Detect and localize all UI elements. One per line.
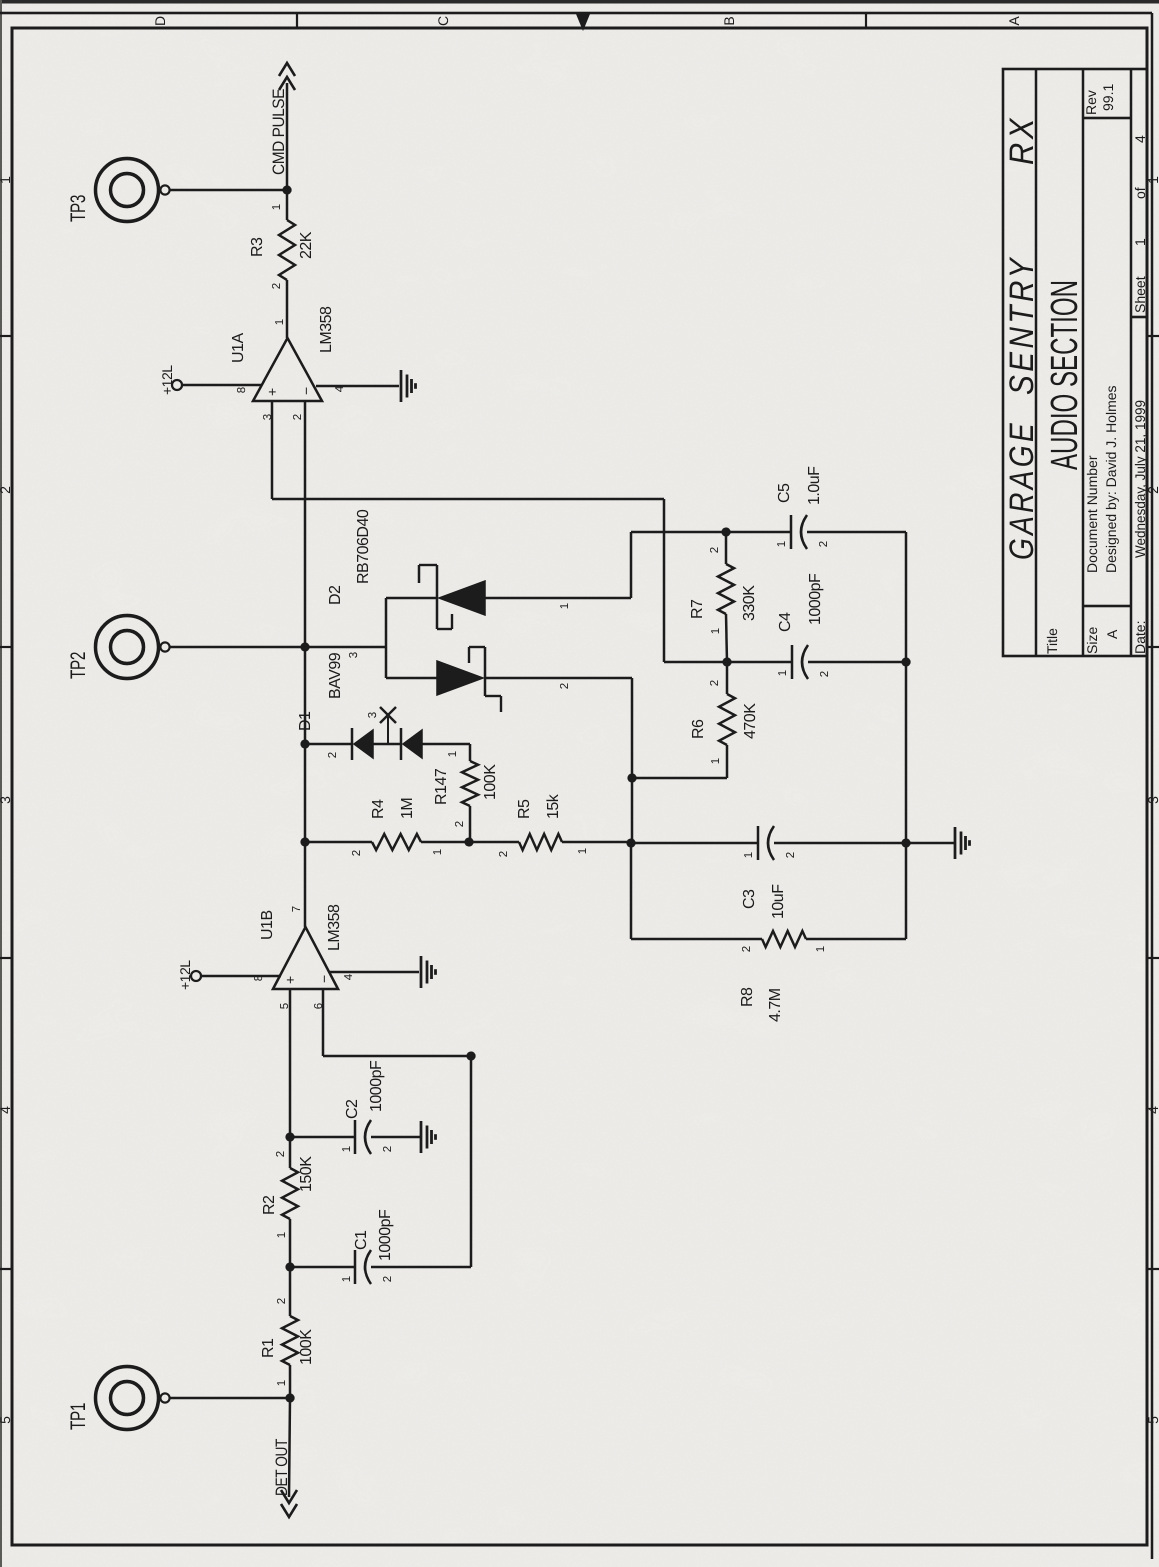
svg-text:1: 1: [777, 670, 789, 676]
svg-text:22K: 22K: [298, 231, 315, 259]
zone tick bottom: [1147, 335, 1159, 337]
svg-text:1: 1: [432, 849, 444, 855]
wire: [726, 662, 729, 694]
zone tick bottom: [1147, 957, 1159, 959]
svg-text:1.0uF: 1.0uF: [806, 466, 823, 505]
test point TP2: [96, 616, 170, 679]
svg-text:+12L: +12L: [177, 960, 193, 990]
wire: [631, 842, 758, 845]
svg-text:Sheet: Sheet: [1132, 276, 1148, 313]
svg-text:1: 1: [276, 1380, 288, 1386]
svg-text:B: B: [721, 16, 737, 25]
wire into pin6: [322, 989, 325, 1056]
svg-text:Wednesday, July 21, 1999: Wednesday, July 21, 1999: [1132, 400, 1148, 558]
svg-text:3: 3: [348, 652, 360, 658]
svg-text:3: 3: [262, 414, 274, 420]
zener B bar: [484, 647, 487, 696]
svg-text:1: 1: [710, 628, 722, 634]
test point TP1: [96, 1367, 170, 1430]
wire left: [663, 499, 666, 662]
svg-text:1: 1: [0, 176, 13, 184]
junction R7/C5: [721, 527, 730, 536]
sheet outer border bottom (scan right): [1151, 13, 1153, 1559]
wire TP2 drop: [170, 646, 305, 649]
svg-text:R1: R1: [260, 1338, 277, 1358]
svg-text:1: 1: [341, 1276, 353, 1282]
svg-text:10uF: 10uF: [770, 884, 787, 919]
svg-text:330K: 330K: [741, 585, 758, 621]
scan page edge top: [0, 0, 1159, 4]
svg-text:R4: R4: [370, 799, 387, 819]
svg-text:2: 2: [709, 680, 721, 686]
junction rail: [901, 838, 910, 847]
svg-text:GARAGE: GARAGE: [1003, 420, 1041, 560]
scan page edge left: [0, 0, 2, 1567]
svg-text:+: +: [282, 976, 298, 984]
wire: [807, 531, 906, 534]
svg-text:1: 1: [577, 848, 589, 854]
svg-text:7: 7: [291, 906, 303, 912]
svg-text:5: 5: [279, 1003, 291, 1009]
zone tick bottom: [1147, 1268, 1159, 1270]
wire: [371, 1266, 471, 1269]
svg-text:R6: R6: [690, 719, 707, 739]
svg-text:4: 4: [0, 1106, 13, 1114]
svg-text:TP3: TP3: [67, 195, 90, 222]
svg-text:1: 1: [341, 1146, 353, 1152]
svg-text:D2: D2: [327, 585, 344, 605]
wire: [305, 743, 352, 746]
svg-text:of: of: [1132, 187, 1148, 199]
junction C1: [285, 1262, 294, 1271]
R3 zigzag: [279, 220, 295, 280]
wire: [289, 1267, 292, 1316]
wire +12L to pin8: [201, 975, 281, 978]
svg-text:1: 1: [274, 319, 286, 325]
svg-text:R147: R147: [433, 768, 450, 805]
wire: [469, 744, 472, 761]
junction C2: [285, 1132, 294, 1141]
svg-text:1: 1: [271, 204, 283, 210]
wire: [774, 842, 906, 845]
zone tick right: [296, 13, 298, 28]
C2 plates: [355, 1120, 371, 1154]
svg-text:A: A: [1104, 629, 1120, 639]
svg-text:1: 1: [776, 541, 788, 547]
svg-text:U1A: U1A: [230, 333, 247, 363]
svg-text:150K: 150K: [298, 1156, 315, 1192]
svg-text:−: −: [298, 387, 314, 395]
wire: [806, 938, 906, 941]
svg-text:6: 6: [313, 1003, 325, 1009]
svg-text:2: 2: [0, 486, 13, 494]
svg-text:+: +: [264, 388, 280, 396]
wire: [630, 843, 633, 939]
junction R147: [464, 837, 473, 846]
junction TP1/R1: [285, 1393, 294, 1402]
wire pin4 gnd: [316, 385, 399, 388]
wire: [371, 1136, 420, 1139]
svg-text:SENTRY: SENTRY: [1003, 255, 1041, 395]
svg-text:1: 1: [447, 751, 459, 757]
R1 zigzag: [282, 1316, 298, 1365]
wire: [421, 841, 469, 844]
svg-text:BAV99: BAV99: [327, 652, 344, 699]
junction rail: [901, 657, 910, 666]
sheet outer border right (scan top): [0, 12, 1152, 15]
wire: [289, 1365, 292, 1398]
junction 4way: [722, 657, 731, 666]
svg-text:2: 2: [819, 671, 831, 677]
svg-text:1000pF: 1000pF: [368, 1060, 385, 1112]
test point TP3: [96, 159, 170, 222]
wire: [386, 597, 437, 600]
R2 zigzag: [282, 1168, 298, 1219]
svg-text:2: 2: [382, 1276, 394, 1282]
svg-text:2: 2: [351, 850, 363, 856]
wire: [286, 190, 289, 220]
wire: [422, 743, 470, 746]
junction D1: [300, 739, 309, 748]
R147 zigzag: [462, 761, 478, 806]
wire pin4 to gnd: [330, 971, 419, 974]
rail wire: [905, 532, 908, 939]
wire: [562, 841, 631, 844]
+12L supply for U1B: [191, 971, 201, 981]
svg-text:−: −: [316, 975, 332, 983]
zone tick top: [0, 1268, 12, 1270]
svg-text:+12L: +12L: [159, 365, 175, 395]
wire TP1 to input line: [170, 1397, 290, 1400]
wire: [727, 661, 792, 664]
svg-text:C1: C1: [353, 1230, 370, 1250]
svg-text:3: 3: [367, 712, 379, 718]
nc stub: [387, 717, 389, 744]
wire det out to R1: [289, 1398, 290, 1497]
wire: [305, 841, 372, 844]
svg-text:5: 5: [0, 1416, 13, 1424]
svg-text:1: 1: [815, 946, 827, 952]
junction TP2/D2: [300, 642, 309, 651]
wire: [485, 677, 632, 680]
svg-text:C: C: [435, 16, 451, 26]
wire: [286, 280, 289, 338]
wire U1B out to U1A pin2: [304, 401, 307, 927]
U1A triangle: [253, 338, 322, 401]
svg-text:C5: C5: [776, 483, 793, 503]
D1 cathode bar 1: [351, 728, 354, 760]
svg-text:Document Number: Document Number: [1084, 455, 1100, 573]
wire to ground: [906, 842, 954, 845]
wire: [469, 841, 519, 844]
wire: [726, 531, 791, 534]
svg-text:A: A: [1006, 16, 1022, 26]
svg-text:2: 2: [741, 946, 753, 952]
DET OUT off-page connector: [281, 1490, 297, 1503]
wire: [726, 745, 729, 778]
wire: [386, 677, 437, 680]
svg-text:4.7M: 4.7M: [767, 988, 784, 1022]
svg-text:R8: R8: [739, 987, 756, 1007]
C3 plates: [758, 826, 774, 860]
wire: [485, 597, 631, 600]
svg-text:Designed by: David J. Holmes: Designed by: David J. Holmes: [1103, 385, 1119, 573]
svg-text:U1B: U1B: [259, 910, 276, 940]
svg-text:1000pF: 1000pF: [377, 1209, 394, 1261]
svg-text:1: 1: [1132, 238, 1148, 246]
svg-text:D1: D1: [297, 711, 314, 731]
C5 plates: [791, 515, 807, 549]
svg-text:1: 1: [710, 758, 722, 764]
svg-text:2: 2: [454, 821, 466, 827]
svg-text:C4: C4: [777, 612, 794, 632]
zener A bar: [436, 565, 439, 629]
svg-text:Title: Title: [1044, 628, 1060, 654]
svg-text:Date:: Date:: [1132, 621, 1148, 654]
wire: [469, 806, 472, 842]
zone tick bottom: [1147, 646, 1159, 648]
svg-text:3: 3: [0, 796, 13, 804]
svg-text:2: 2: [327, 752, 339, 758]
zone tick top: [0, 957, 12, 959]
svg-text:470K: 470K: [742, 703, 759, 739]
svg-text:2: 2: [276, 1298, 288, 1304]
D2 connector: [385, 598, 388, 678]
junction TP3: [282, 185, 291, 194]
wire out: [286, 83, 289, 190]
wire: [289, 1137, 292, 1168]
svg-text:5: 5: [1145, 1416, 1159, 1424]
svg-text:15k: 15k: [545, 793, 562, 819]
wire: [808, 661, 906, 664]
wire: [290, 1266, 355, 1269]
svg-text:1: 1: [559, 603, 571, 609]
svg-text:100K: 100K: [482, 764, 499, 800]
svg-text:Size: Size: [1084, 627, 1100, 654]
title block: [1003, 69, 1147, 656]
junction R4: [300, 837, 309, 846]
R6 zigzag: [719, 694, 735, 745]
R8 zigzag: [762, 931, 806, 947]
centering arrow right edge: [576, 14, 590, 31]
wire: [289, 1219, 292, 1267]
U1B triangle: [273, 927, 338, 989]
svg-text:2: 2: [709, 547, 721, 553]
svg-text:TP2: TP2: [67, 652, 90, 679]
zone tick top: [0, 335, 12, 337]
R7 zigzag: [718, 564, 734, 614]
svg-text:Rev: Rev: [1083, 90, 1099, 115]
svg-text:2: 2: [292, 414, 304, 420]
svg-text:1000pF: 1000pF: [807, 573, 824, 625]
svg-text:C2: C2: [344, 1099, 361, 1119]
svg-text:AUDIO SECTION: AUDIO SECTION: [1044, 280, 1086, 470]
wire to junction: [664, 661, 727, 664]
svg-text:LM358: LM358: [326, 904, 343, 951]
svg-text:4: 4: [1132, 135, 1148, 143]
D1 cathode bar 2: [400, 728, 403, 760]
C4 plates: [792, 645, 808, 679]
R4 zigzag: [372, 834, 421, 850]
svg-text:100K: 100K: [298, 1329, 315, 1365]
svg-text:LM358: LM358: [318, 306, 335, 353]
svg-text:2: 2: [785, 852, 797, 858]
svg-text:4: 4: [1145, 1106, 1159, 1114]
zone tick top: [0, 646, 12, 648]
svg-text:8: 8: [236, 387, 248, 393]
zone tick right mid: [582, 13, 584, 28]
zone tick right: [865, 13, 867, 28]
wire: [725, 532, 728, 564]
svg-text:CMD PULSE: CMD PULSE: [270, 89, 288, 175]
svg-text:R5: R5: [516, 799, 533, 819]
svg-text:D: D: [152, 16, 168, 26]
+12L supply for U1A: [172, 380, 182, 390]
wire down: [272, 498, 664, 501]
svg-text:2: 2: [559, 683, 571, 689]
svg-text:2: 2: [275, 1151, 287, 1157]
wire corner: [630, 532, 633, 598]
wire: [323, 1055, 471, 1058]
wire to U1B pin5: [289, 989, 292, 1137]
C1 plates: [355, 1250, 371, 1284]
wire between diodes: [373, 743, 401, 746]
wire down to R6: [632, 777, 727, 780]
svg-text:R2: R2: [261, 1195, 278, 1215]
wire +12L: [182, 384, 262, 387]
junction R6 branch: [627, 773, 636, 782]
corner dot: [466, 1051, 475, 1060]
ground at C2: [421, 1121, 436, 1153]
wire: [290, 1136, 355, 1139]
svg-text:99.1: 99.1: [1100, 84, 1116, 111]
wire: [470, 1056, 473, 1267]
svg-text:1: 1: [276, 1232, 288, 1238]
wire: [305, 646, 386, 649]
svg-text:C3: C3: [741, 889, 758, 909]
svg-text:1M: 1M: [399, 798, 416, 819]
junction R6-branch/C3: [626, 838, 635, 847]
svg-text:4: 4: [343, 973, 355, 980]
wire pin3: [271, 401, 274, 499]
svg-text:R3: R3: [249, 237, 266, 257]
wire TP3 drop: [170, 189, 287, 192]
svg-text:1: 1: [743, 852, 755, 858]
svg-text:2: 2: [382, 1146, 394, 1152]
wire down to R7/C5 junction: [631, 531, 726, 534]
svg-text:RX: RX: [1003, 115, 1041, 165]
svg-text:2: 2: [271, 283, 283, 289]
R5 zigzag: [519, 834, 562, 850]
svg-text:R7: R7: [689, 599, 706, 619]
wire: [726, 614, 727, 662]
svg-text:3: 3: [1145, 796, 1159, 804]
wire: [631, 678, 634, 843]
svg-text:RB706D40: RB706D40: [355, 509, 372, 584]
svg-text:2: 2: [818, 541, 830, 547]
svg-text:TP1: TP1: [67, 1403, 90, 1430]
svg-text:2: 2: [498, 851, 510, 857]
wire: [631, 938, 762, 941]
